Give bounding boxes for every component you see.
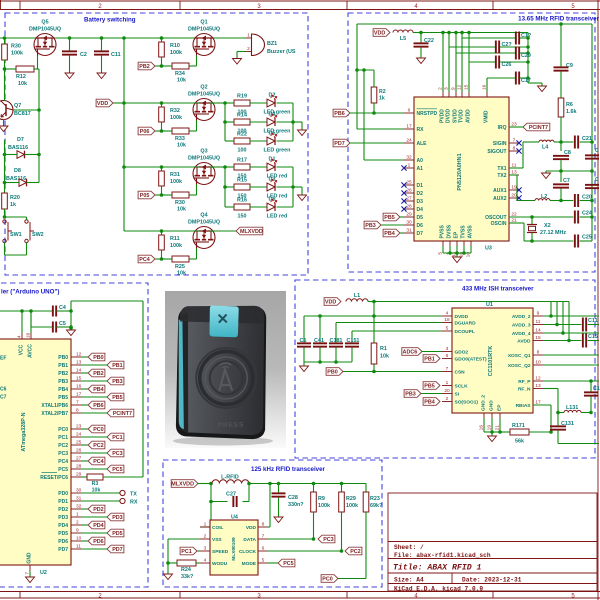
- wire RBIAS: [533, 404, 551, 406]
- svg-text:C26: C26: [502, 62, 512, 68]
- svg-text:PN5120A0HN1: PN5120A0HN1: [457, 153, 463, 190]
- svg-text:D1: D1: [417, 183, 424, 189]
- wire RF_N: [543, 388, 558, 390]
- IC U4 left pins: [200, 526, 210, 528]
- svg-text:100k: 100k: [170, 115, 182, 121]
- svg-text:8: 8: [513, 146, 516, 152]
- svg-text:RX: RX: [130, 500, 138, 506]
- svg-text:PD5: PD5: [58, 531, 68, 537]
- resistor R30b: [172, 192, 189, 198]
- IC U2 pin PC4: [71, 460, 81, 462]
- label PD4: [88, 521, 105, 529]
- svg-text:TVDD: TVDD: [459, 109, 465, 123]
- svg-text:C27: C27: [226, 492, 236, 498]
- svg-text:C5: C5: [59, 321, 66, 327]
- svg-text:11: 11: [76, 544, 81, 550]
- svg-text:U2: U2: [40, 570, 47, 576]
- IC U2 pin PD1: [71, 500, 81, 502]
- svg-text:27: 27: [406, 196, 412, 202]
- labels PB5 PB3 PB4 at U3: [383, 213, 400, 221]
- wire VDD rail 13MHz: [421, 32, 528, 34]
- svg-text:PB3: PB3: [112, 379, 123, 385]
- svg-text:WODU: WODU: [212, 561, 228, 567]
- label PC0: [88, 425, 105, 433]
- svg-text:25: 25: [76, 440, 82, 446]
- svg-text:R30: R30: [175, 200, 185, 206]
- svg-text:PB0: PB0: [93, 355, 104, 361]
- svg-text:IRQ: IRQ: [498, 125, 507, 131]
- wire 125k top rail: [249, 483, 366, 485]
- svg-text:TVSS: TVSS: [461, 225, 467, 239]
- ground below C28: [274, 517, 283, 523]
- transistor Q1: [193, 34, 215, 56]
- capacitor C28: [278, 484, 280, 493]
- svg-text:PD3: PD3: [112, 515, 123, 521]
- crystal X2: [509, 216, 532, 218]
- title block: [388, 493, 597, 591]
- svg-text:AVSS: AVSS: [468, 225, 474, 239]
- svg-text:1: 1: [76, 512, 79, 518]
- svg-text:7: 7: [76, 400, 79, 406]
- capacitor C20: [561, 200, 573, 202]
- label PB2: [138, 62, 155, 70]
- svg-text:PB1: PB1: [112, 363, 123, 369]
- svg-text:BZ1: BZ1: [267, 41, 277, 47]
- svg-text:2: 2: [76, 520, 79, 526]
- svg-text:2: 2: [204, 534, 207, 540]
- svg-text:26: 26: [406, 188, 412, 194]
- svg-text:R19: R19: [237, 94, 247, 100]
- svg-text:D5: D5: [269, 131, 276, 137]
- svg-text:C21: C21: [582, 136, 592, 142]
- wire row DCOUPL: [352, 330, 442, 332]
- svg-text:7: 7: [446, 366, 449, 372]
- wire Q4 rail: [124, 230, 199, 232]
- svg-text:6: 6: [408, 108, 411, 114]
- svg-text:29: 29: [406, 212, 412, 218]
- capacitor C4: [52, 306, 54, 317]
- capacitor C11 433: [582, 318, 584, 332]
- IC U1 bottom pins: [483, 413, 485, 418]
- svg-text:PRESS: PRESS: [218, 421, 245, 429]
- label P06: [138, 127, 155, 135]
- svg-text:U1: U1: [486, 302, 493, 308]
- svg-text:PC2: PC2: [350, 549, 361, 555]
- wire to ground LED red: [293, 186, 302, 188]
- svg-text:DCOUPL: DCOUPL: [455, 329, 475, 335]
- svg-text:PD2: PD2: [93, 507, 104, 513]
- svg-text:NRSTPD: NRSTPD: [417, 111, 438, 117]
- svg-text:L131: L131: [566, 405, 578, 411]
- svg-text:PC3: PC3: [58, 451, 68, 457]
- ground below Q7: [3, 119, 5, 126]
- svg-text:D3: D3: [417, 199, 424, 205]
- capacitor C12: [515, 32, 517, 45]
- svg-text:PB5: PB5: [384, 215, 395, 221]
- power label VDD: [96, 99, 113, 107]
- svg-text:ler ("Arduino UNO"): ler ("Arduino UNO"): [1, 289, 59, 296]
- svg-text:COIL: COIL: [212, 525, 224, 531]
- wire TX1 to L4: [509, 167, 523, 169]
- IC U2 pin XTAL2/PB7: [71, 412, 81, 414]
- wire U4 VDD up: [268, 526, 270, 528]
- svg-text:100k: 100k: [170, 179, 182, 185]
- svg-text:R31: R31: [170, 172, 180, 178]
- svg-text:PB2: PB2: [139, 64, 150, 70]
- svg-text:PCINT7: PCINT7: [529, 125, 548, 131]
- power label VDD 433: [324, 298, 341, 306]
- svg-text:PB2: PB2: [58, 371, 68, 377]
- resistor R33: [172, 128, 189, 134]
- svg-text:A1: A1: [417, 166, 424, 172]
- svg-text:U4: U4: [231, 515, 238, 521]
- svg-text:PC4: PC4: [139, 257, 150, 263]
- resistor R171: [500, 431, 510, 433]
- svg-text:56k: 56k: [515, 439, 524, 445]
- svg-text:PD6: PD6: [93, 539, 104, 545]
- svg-text:17: 17: [76, 392, 82, 398]
- label PD6: [88, 537, 105, 545]
- svg-text:PC0: PC0: [322, 577, 333, 583]
- svg-text:P06: P06: [140, 129, 150, 135]
- svg-text:CLOCK: CLOCK: [239, 549, 257, 555]
- wire VDD column: [123, 38, 125, 231]
- svg-text:R9: R9: [318, 496, 325, 502]
- IC U2 pin PD5: [71, 532, 81, 534]
- svg-text:20: 20: [511, 193, 517, 199]
- svg-text:LED green: LED green: [264, 148, 291, 154]
- svg-text:PD7: PD7: [58, 547, 68, 553]
- svg-text:D2: D2: [417, 191, 424, 197]
- wire C131 bottom: [558, 443, 599, 445]
- svg-text:31: 31: [76, 496, 82, 502]
- svg-text:C131: C131: [561, 421, 574, 427]
- svg-text:C1: C1: [593, 386, 600, 392]
- svg-text:15: 15: [535, 335, 541, 341]
- svg-text:PD7: PD7: [112, 547, 123, 553]
- resistor R24: [177, 560, 196, 566]
- svg-text:R3: R3: [92, 481, 99, 487]
- IC U1 right pins: [533, 315, 543, 317]
- svg-text:17: 17: [406, 124, 412, 130]
- svg-text:10k: 10k: [177, 143, 186, 149]
- svg-text:R1: R1: [380, 346, 387, 352]
- svg-text:Q7: Q7: [14, 103, 21, 109]
- label P05: [138, 191, 155, 199]
- svg-text:8: 8: [537, 350, 540, 356]
- svg-text:7: 7: [262, 534, 265, 540]
- svg-text:DVSS: DVSS: [447, 224, 453, 238]
- svg-text:C9: C9: [566, 63, 573, 69]
- capacitor C41: [319, 316, 321, 342]
- svg-text:PB4: PB4: [384, 231, 395, 237]
- IC U2 pin PC1: [71, 436, 81, 438]
- wires U3 bottom to ground: [442, 246, 444, 253]
- svg-text:13: 13: [76, 360, 82, 366]
- svg-text:100k: 100k: [318, 503, 330, 509]
- svg-text:433 MHz ISH transceiver: 433 MHz ISH transceiver: [462, 286, 534, 293]
- svg-text:GND: GND: [27, 552, 33, 564]
- wire C4 C5 right vertical: [70, 301, 72, 328]
- svg-text:5: 5: [262, 558, 265, 564]
- resistor R20: [2, 193, 8, 209]
- resistor R32: [159, 107, 165, 122]
- svg-text:20: 20: [444, 388, 450, 394]
- svg-text:9: 9: [537, 311, 540, 317]
- svg-text:R34: R34: [175, 71, 185, 77]
- svg-text:D5: D5: [417, 215, 424, 221]
- resistor R6: [558, 98, 564, 117]
- resistor R3: [81, 476, 87, 478]
- svg-text:C1: C1: [300, 338, 307, 344]
- svg-text:D7: D7: [417, 231, 424, 237]
- svg-text:PC1: PC1: [181, 549, 192, 555]
- IC U3 left pins: [404, 112, 414, 114]
- ground mid rail: [542, 173, 551, 179]
- svg-text:SIGIN: SIGIN: [493, 141, 507, 147]
- wire D2 to bus: [277, 102, 294, 104]
- svg-text:PC5: PC5: [112, 467, 123, 473]
- IC U2 pin PD2: [71, 508, 81, 510]
- svg-text:GDO0(ATEST): GDO0(ATEST): [455, 357, 488, 363]
- svg-text:10: 10: [76, 536, 82, 542]
- capacitor C3 right edge: [585, 154, 599, 156]
- svg-text:9: 9: [76, 528, 79, 534]
- ground below buzzer: [233, 59, 242, 65]
- svg-text:VDD: VDD: [325, 300, 336, 306]
- svg-text:R25: R25: [175, 264, 185, 270]
- wire VSS to ground: [168, 538, 200, 540]
- IC U2 pin PD7: [71, 548, 81, 550]
- wire R12 to Q5 gate: [34, 68, 38, 70]
- svg-text:10k: 10k: [177, 271, 186, 277]
- wire DVDD rail 433: [374, 301, 569, 303]
- wire DVDD down: [373, 302, 375, 372]
- capacitor C131: [557, 413, 559, 426]
- svg-text:R32: R32: [170, 108, 180, 114]
- label PD2: [88, 505, 105, 513]
- svg-text:RESET/PC6: RESET/PC6: [40, 475, 68, 481]
- svg-text:5: 5: [446, 326, 449, 332]
- svg-text:8: 8: [262, 522, 265, 528]
- capacitor C15 433: [582, 334, 584, 348]
- label PC1: [107, 433, 124, 441]
- svg-text:R17: R17: [237, 158, 247, 164]
- svg-text:PD2: PD2: [58, 507, 68, 513]
- label PC3: [107, 449, 124, 457]
- svg-text:R29: R29: [346, 496, 356, 502]
- svg-text:XOSC_Q2: XOSC_Q2: [508, 363, 531, 369]
- switch SW1: [3, 215, 7, 219]
- svg-text:GDO2: GDO2: [455, 350, 469, 356]
- svg-text:1: 1: [408, 163, 411, 169]
- resistor R2: [371, 87, 377, 103]
- svg-text:VCC: VCC: [19, 344, 25, 355]
- svg-text:32: 32: [76, 504, 82, 510]
- svg-text:PB4: PB4: [424, 400, 435, 406]
- wire Q3 LED bus left: [224, 167, 226, 207]
- wire main battery rail: [0, 37, 246, 39]
- wire right rail down: [559, 22, 563, 26]
- label PC2: [88, 441, 105, 449]
- label PD7: [107, 545, 124, 553]
- label PB4: [88, 385, 105, 393]
- svg-text:OSCIN: OSCIN: [491, 221, 507, 227]
- label PC4: [88, 457, 105, 465]
- svg-text:28: 28: [406, 204, 412, 210]
- transistor Q5: [34, 34, 56, 56]
- svg-text:C181: C181: [330, 338, 343, 344]
- label PB3 433: [404, 390, 421, 398]
- label PC3: [318, 535, 335, 543]
- svg-text:PB0: PB0: [327, 370, 338, 376]
- svg-text:14: 14: [535, 328, 541, 334]
- IC U2 pin PB2: [71, 372, 81, 374]
- svg-text:150: 150: [238, 214, 247, 220]
- svg-text:R22: R22: [237, 132, 247, 138]
- ground cap grid: [538, 86, 547, 92]
- svg-text:100: 100: [238, 148, 247, 154]
- IC U2 pin PB5: [71, 396, 81, 398]
- svg-text:PB5: PB5: [112, 395, 123, 401]
- svg-text:100k: 100k: [346, 503, 358, 509]
- svg-text:SI: SI: [455, 392, 460, 398]
- resistor R22: [234, 138, 250, 144]
- svg-text:Q2: Q2: [200, 85, 207, 91]
- svg-text:4: 4: [17, 335, 22, 338]
- section box microcontroller Arduino UNO: [0, 283, 148, 587]
- svg-text:PD4: PD4: [58, 523, 68, 529]
- svg-text:PC3: PC3: [323, 537, 334, 543]
- section box 433 MHz ISH transceiver: [295, 280, 595, 458]
- wires U1 bottom ground: [483, 418, 485, 432]
- svg-text:KiCad E.D.A. kicad 7.0.9: KiCad E.D.A. kicad 7.0.9: [394, 585, 483, 592]
- svg-text:10: 10: [535, 360, 541, 366]
- LED D4: [267, 114, 277, 126]
- svg-text:100k: 100k: [170, 50, 182, 56]
- svg-text:AUX2: AUX2: [493, 196, 507, 202]
- svg-text:15: 15: [76, 376, 82, 382]
- svg-text:2: 2: [446, 396, 449, 402]
- svg-text:TX1: TX1: [497, 166, 506, 172]
- svg-text:BAS116: BAS116: [8, 145, 28, 151]
- svg-text:D1: D1: [269, 157, 276, 163]
- svg-text:18: 18: [26, 332, 31, 338]
- svg-text:PC3: PC3: [112, 451, 123, 457]
- wire DATA row: [268, 538, 314, 540]
- ground U3 bottom: [453, 257, 462, 263]
- svg-text:LED green: LED green: [264, 110, 291, 116]
- ground below C5: [70, 328, 72, 330]
- svg-text:D8: D8: [14, 168, 21, 174]
- IC U2 pin PB4: [71, 388, 81, 390]
- svg-text:PB1: PB1: [58, 363, 68, 369]
- svg-text:R2: R2: [379, 89, 386, 95]
- svg-text:Q4: Q4: [200, 213, 207, 219]
- wire R30b to Q3 gate: [189, 194, 197, 196]
- svg-text:R24: R24: [181, 567, 191, 573]
- inductor L5: [393, 30, 413, 33]
- svg-text:R15: R15: [237, 178, 247, 184]
- label PB0: [88, 353, 105, 361]
- LED D3: [267, 179, 277, 191]
- label PD3: [107, 513, 124, 521]
- resistor R34: [172, 63, 189, 69]
- wire to ground 125k: [167, 563, 169, 574]
- label PB4 433: [423, 398, 440, 406]
- svg-text:AUX1: AUX1: [493, 188, 507, 194]
- IC U2 pin PB1: [71, 364, 81, 366]
- wire RF_P: [543, 380, 599, 382]
- wire R23 to PC0: [365, 512, 367, 579]
- wire Q3 rail: [124, 166, 199, 168]
- svg-text:CC1101RTK: CC1101RTK: [488, 346, 494, 377]
- svg-text:32: 32: [406, 155, 412, 161]
- svg-text:18: 18: [444, 317, 450, 323]
- svg-text:SW1: SW1: [10, 232, 22, 238]
- svg-text:PB4: PB4: [93, 387, 104, 393]
- label PC4: [138, 255, 155, 263]
- wire AVDD_3 row to C11: [543, 324, 581, 326]
- svg-text:SPEED: SPEED: [212, 549, 229, 555]
- svg-text:3: 3: [204, 546, 207, 552]
- svg-text:DVDD: DVDD: [455, 314, 469, 320]
- svg-text:VDD: VDD: [374, 31, 385, 37]
- svg-text:C: C: [595, 177, 599, 183]
- svg-text:PB3: PB3: [365, 223, 376, 229]
- IC U3 PN5120A0HN1 body: [414, 97, 509, 241]
- LED D6: [267, 199, 277, 211]
- IC U1 CC1101RTK body: [452, 308, 533, 413]
- capacitor C8: [560, 142, 562, 151]
- svg-text:3: 3: [446, 346, 449, 352]
- svg-text:ADC6: ADC6: [403, 350, 418, 356]
- svg-text:4: 4: [446, 311, 449, 317]
- svg-text:R14: R14: [237, 113, 247, 119]
- wire LED red right bus: [292, 167, 294, 207]
- svg-text:L4: L4: [542, 145, 548, 151]
- ground U1: [488, 436, 497, 442]
- IC U1 left pins: [442, 315, 452, 317]
- svg-text:EP: EP: [454, 231, 460, 238]
- svg-text:DMP1045UQ: DMP1045UQ: [188, 220, 220, 226]
- svg-text:Buzzer (US: Buzzer (US: [267, 49, 296, 55]
- svg-text:Size: A4: Size: A4: [394, 576, 424, 583]
- svg-text:PB4: PB4: [58, 387, 68, 393]
- svg-text:10k: 10k: [177, 207, 186, 213]
- svg-text:MODE: MODE: [242, 561, 257, 567]
- svg-text:RBIAS: RBIAS: [516, 403, 532, 409]
- svg-text:C151: C151: [347, 338, 360, 344]
- svg-text:C11: C11: [588, 318, 598, 324]
- label PB3: [107, 377, 124, 385]
- svg-text:Q5: Q5: [41, 20, 48, 26]
- wire XOSC_Q1: [543, 354, 599, 356]
- inductor L2: [535, 199, 550, 201]
- svg-text:C2?: C2?: [502, 42, 512, 48]
- svg-text:27: 27: [76, 456, 82, 462]
- decoupling cap grid wires: [442, 33, 444, 92]
- IC U3 top pins: [442, 92, 444, 97]
- inductor L131: [558, 412, 564, 414]
- svg-text:BC817: BC817: [14, 111, 31, 117]
- transistor Q4: [193, 227, 215, 249]
- svg-text:AVDD: AVDD: [517, 339, 531, 345]
- capacitor C7: [560, 171, 562, 182]
- svg-text:L-RFID: L-RFID: [221, 475, 239, 481]
- svg-text:PD7: PD7: [334, 141, 345, 147]
- svg-text:RF_P: RF_P: [518, 379, 531, 385]
